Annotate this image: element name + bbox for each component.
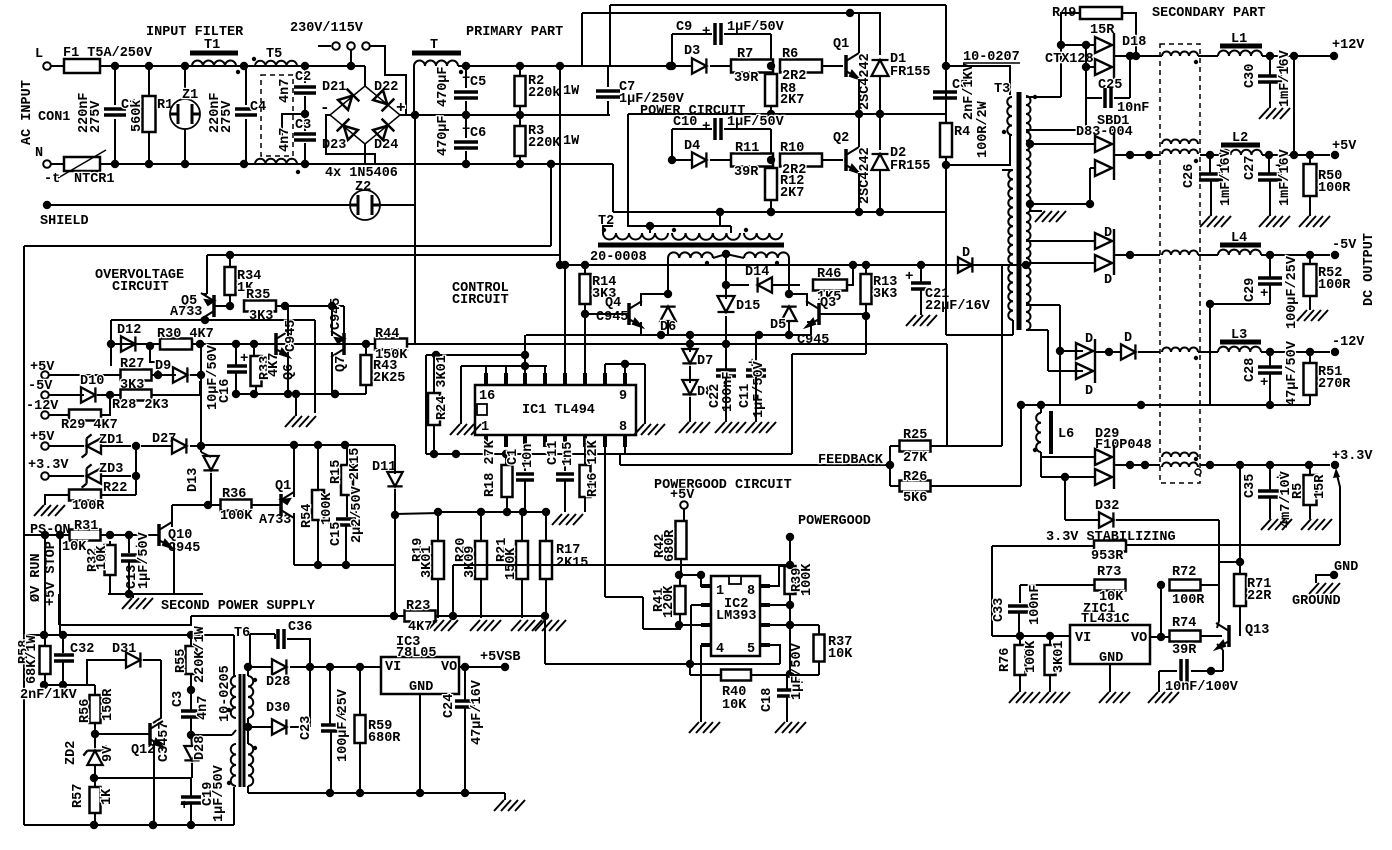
wire [1059, 305, 1061, 405]
junction [226, 302, 234, 310]
svg-text:A733: A733 [259, 513, 291, 528]
svg-text:GROUND: GROUND [1292, 594, 1341, 609]
wire D18 out [1114, 55, 1162, 57]
IC1 top pin stub 16 [484, 373, 488, 385]
junction [556, 62, 564, 70]
choke winding 5V a [1162, 140, 1198, 145]
junction [855, 208, 863, 216]
capacitor C3 [294, 134, 316, 140]
svg-text:F1 T5A/250V: F1 T5A/250V [63, 46, 153, 61]
wire [1049, 675, 1051, 692]
svg-text:2K15: 2K15 [556, 556, 588, 571]
resistor R75 [1045, 645, 1056, 675]
svg-text:POWERGOOD: POWERGOOD [798, 514, 871, 529]
resistor R5 [1304, 475, 1317, 505]
wire power mid left down [628, 114, 650, 226]
junction [391, 511, 399, 519]
IC notch [477, 404, 487, 415]
choke winding 3V3 b [1162, 463, 1198, 468]
wire [672, 128, 712, 130]
svg-text:C35: C35 [1243, 474, 1258, 498]
wire [62, 635, 64, 653]
wire [1269, 374, 1271, 405]
wire R26 right [930, 485, 1021, 487]
junction [581, 261, 589, 269]
wire [100, 475, 131, 477]
wire [287, 639, 310, 667]
wire D29 out [1114, 464, 1160, 466]
wire primary minus drop [550, 164, 552, 246]
wire [365, 344, 367, 355]
junction [1290, 52, 1298, 60]
wire [1090, 167, 1095, 169]
svg-text:39R: 39R [734, 165, 759, 180]
wire [345, 526, 347, 565]
wire [51, 163, 64, 165]
svg-text:D10: D10 [80, 374, 104, 389]
wire pin15 [505, 366, 507, 373]
svg-text:100R: 100R [1318, 181, 1351, 196]
wire [690, 605, 692, 664]
svg-text:10K: 10K [828, 647, 853, 662]
diode D11 [387, 472, 402, 486]
wire [1158, 671, 1160, 692]
IC1 top pin stub 13 [543, 373, 547, 385]
IC2 left pin stub [701, 584, 711, 588]
terminal -12V [41, 411, 49, 419]
wire tap -12Vb [1026, 329, 1048, 331]
svg-text:F10P048: F10P048 [1095, 438, 1152, 453]
ground [745, 422, 776, 433]
resistor R50 [1304, 164, 1317, 196]
svg-text:5K6: 5K6 [903, 491, 927, 506]
wire -5V row [1261, 254, 1330, 256]
wire T2 top link drop [649, 226, 651, 233]
wire Q13 junction [1239, 625, 1241, 636]
wire Q7 collector [331, 352, 333, 394]
svg-text:T1: T1 [204, 38, 220, 53]
svg-text:100R: 100R [72, 499, 105, 514]
svg-text:FEEDBACK: FEEDBACK [818, 453, 884, 468]
capacitor C26 [1199, 174, 1223, 180]
junction [697, 571, 705, 579]
junction [1056, 347, 1064, 355]
wire [235, 373, 237, 394]
transistor Q13 [1216, 623, 1229, 649]
wire row 667 [248, 666, 273, 668]
ground [1148, 692, 1179, 703]
wire [1309, 196, 1311, 216]
wire [505, 454, 507, 464]
svg-text:1n5: 1n5 [561, 442, 576, 466]
wire [772, 284, 800, 286]
wire [751, 674, 790, 676]
IC1 bottom pin stub 4 [543, 435, 547, 447]
svg-text:1µF/50V: 1µF/50V [137, 531, 152, 589]
wire D1 down [879, 76, 881, 114]
resistor R58 [40, 646, 51, 674]
resistor R49 [1080, 7, 1122, 19]
wire [680, 559, 682, 575]
inductor L3 [1218, 347, 1261, 352]
svg-text:3K01: 3K01 [420, 546, 435, 578]
svg-text:C5: C5 [470, 75, 486, 90]
wire [250, 633, 275, 635]
diode D7 [682, 349, 697, 363]
wire [1040, 452, 1042, 477]
wire [524, 447, 526, 471]
junction [1132, 52, 1140, 60]
T3 core bar [1017, 92, 1022, 330]
wire [135, 446, 137, 476]
junction [1126, 461, 1134, 469]
svg-text:R29 4K7: R29 4K7 [61, 418, 118, 433]
wire [304, 96, 306, 131]
IC2 right pin stub [760, 584, 770, 588]
wire Q5 emitter [206, 255, 208, 294]
svg-text:C10: C10 [673, 115, 697, 130]
svg-text:R26: R26 [903, 470, 927, 485]
junction [244, 663, 252, 671]
wire row 344 right [406, 343, 947, 345]
wire bridge bottom [364, 144, 366, 164]
svg-text:INPUT FILTER: INPUT FILTER [146, 25, 244, 40]
junction [356, 789, 364, 797]
junction [1145, 151, 1153, 159]
wire [235, 344, 237, 366]
svg-text:AC INPUT: AC INPUT [20, 80, 35, 145]
wire [139, 343, 160, 345]
ground [285, 416, 316, 427]
junction [226, 251, 234, 259]
wire [190, 635, 192, 646]
junction [301, 110, 309, 118]
wire SBD out [1114, 154, 1160, 156]
wire left drop [425, 355, 427, 454]
junction [876, 208, 884, 216]
wire to pin1 [701, 575, 710, 586]
junction [1022, 261, 1030, 269]
wire [683, 509, 685, 521]
IC2 notch [729, 576, 741, 584]
wire [890, 485, 900, 487]
junction [668, 156, 676, 164]
junction [561, 261, 569, 269]
junction [862, 312, 870, 320]
svg-text:R5: R5 [1291, 483, 1306, 499]
svg-text:1: 1 [716, 584, 724, 599]
junction [521, 362, 529, 370]
diode D12 [121, 336, 135, 351]
wire row 344 left [111, 343, 376, 345]
wire D30 up [309, 667, 311, 727]
junction [125, 590, 133, 598]
svg-text:2K7: 2K7 [780, 186, 804, 201]
wire [344, 343, 376, 345]
wire [1309, 352, 1311, 363]
wire [295, 394, 297, 416]
wire Q7 base drop [343, 306, 345, 333]
svg-text:953R: 953R [1091, 549, 1124, 564]
ground [122, 598, 153, 609]
dual diode SBD1 [1095, 132, 1114, 180]
spark gap Z2 [350, 190, 380, 220]
svg-text:C11: C11 [738, 384, 753, 408]
resistor R46 [813, 280, 847, 291]
svg-text:9: 9 [619, 389, 627, 404]
L2 core [1221, 143, 1260, 148]
svg-text:275V: 275V [220, 100, 235, 133]
svg-text:R74: R74 [1172, 616, 1196, 631]
ground [1309, 583, 1340, 594]
ground [535, 620, 566, 631]
wire [290, 726, 310, 728]
wire [519, 156, 521, 164]
wire R14 to pin11 [584, 314, 586, 373]
svg-text:C16: C16 [218, 379, 233, 403]
wire [465, 115, 467, 138]
wire [865, 265, 867, 274]
choke winding -5V [1162, 251, 1198, 256]
wire [1217, 644, 1223, 650]
inductor L4 [1218, 250, 1261, 255]
wire Q4 emitter [640, 322, 642, 335]
ground [1299, 216, 1330, 227]
junction [232, 340, 240, 348]
junction [1266, 461, 1274, 469]
wire [192, 343, 276, 345]
inductor L1 [1218, 51, 1262, 57]
svg-text:R44: R44 [375, 327, 399, 342]
resistor R6 [780, 60, 822, 73]
svg-text:R23: R23 [406, 599, 430, 614]
wire row 664 [545, 663, 780, 665]
wire [672, 159, 692, 161]
junction [502, 450, 510, 458]
capacitor C1 [104, 109, 126, 115]
wire rail 635 [26, 634, 234, 636]
svg-text:4: 4 [716, 642, 724, 657]
junction [722, 250, 730, 258]
ground [1297, 310, 1328, 321]
wire [191, 735, 192, 747]
wire [190, 374, 201, 376]
wire row 685 [44, 684, 95, 686]
wire [710, 65, 731, 67]
svg-text:1µF/50V: 1µF/50V [727, 20, 785, 35]
wire minus rail left [24, 245, 551, 247]
phase dot [252, 57, 256, 61]
junction [541, 612, 549, 620]
junction [187, 686, 195, 694]
svg-text:22µF/16V: 22µF/16V [925, 299, 991, 314]
wire [49, 475, 84, 477]
wire [290, 666, 381, 668]
junction [40, 631, 48, 639]
terminal +5V [1331, 151, 1339, 159]
wire rail drop [544, 616, 546, 664]
wire [94, 764, 96, 778]
wire D31 down [153, 660, 161, 723]
junction feedback [886, 461, 894, 469]
wire [1198, 254, 1218, 256]
wire [1269, 83, 1271, 108]
resistor R1 [143, 96, 156, 132]
capacitor C2 [294, 87, 316, 93]
wire Q6 collector [287, 306, 289, 336]
capacitor C4 [235, 109, 257, 115]
wire D13 column [200, 346, 202, 452]
wire [437, 579, 439, 618]
junction [197, 371, 205, 379]
wire [822, 65, 843, 67]
svg-text:D9: D9 [155, 359, 171, 374]
wire [584, 304, 586, 314]
phase dot [602, 228, 606, 232]
capacitor C21 [911, 283, 931, 289]
wire [94, 723, 96, 734]
wire [437, 512, 439, 541]
wire [191, 763, 193, 778]
diode D5 [781, 307, 796, 321]
junction [668, 62, 676, 70]
svg-text:R27: R27 [120, 357, 144, 372]
wire [49, 394, 84, 396]
wire [1095, 351, 1122, 353]
wire to R23 [394, 565, 396, 616]
IC1 bottom pin stub 7 [603, 435, 607, 447]
resistor R21 [516, 541, 528, 579]
svg-text:3K09: 3K09 [463, 546, 478, 578]
wire rail down 2 [945, 165, 947, 335]
wire [1018, 613, 1020, 636]
junction [292, 390, 300, 398]
junction [240, 160, 248, 168]
svg-text:C23: C23 [299, 716, 314, 740]
junction [666, 62, 674, 70]
ground [1301, 519, 1332, 530]
svg-text:L6: L6 [1058, 427, 1074, 442]
svg-text:D18: D18 [1122, 35, 1146, 50]
wire [190, 804, 192, 825]
svg-text:+3.3V: +3.3V [28, 458, 69, 473]
junction [1157, 581, 1165, 589]
IC2 right pin stub [760, 643, 770, 647]
wire [770, 129, 772, 154]
resistor R23 [405, 611, 436, 622]
wire [1269, 352, 1271, 366]
wire PS-ON drop 1 [44, 535, 46, 634]
svg-text:Q4: Q4 [605, 296, 621, 311]
resistor R39 [785, 566, 796, 594]
wire [49, 374, 121, 376]
wire [789, 565, 791, 566]
wire [920, 290, 922, 315]
junction [1086, 200, 1094, 208]
junction [767, 62, 775, 70]
phase dot [253, 678, 257, 682]
wire [249, 634, 251, 667]
svg-text:C30: C30 [1243, 64, 1258, 88]
junction [149, 821, 157, 829]
wire bottom row [24, 824, 191, 826]
wire [726, 284, 749, 286]
junction [187, 631, 195, 639]
junction [390, 612, 398, 620]
wire +3.3V row [1200, 464, 1330, 466]
wire [365, 385, 367, 394]
svg-text:680R: 680R [663, 529, 678, 562]
svg-text:L3: L3 [1231, 328, 1247, 343]
svg-text:150K: 150K [504, 547, 519, 580]
T6 winding right top [248, 676, 253, 718]
wire [1061, 13, 1080, 45]
junction [284, 390, 292, 398]
capacitor C35 [1258, 491, 1282, 497]
svg-text:16: 16 [479, 389, 495, 404]
wire selector mid [350, 50, 352, 66]
svg-text:1: 1 [481, 420, 489, 435]
junction [347, 62, 355, 70]
phase dot [227, 708, 231, 712]
transistor Q7 [331, 331, 344, 357]
wire Q12 base [95, 733, 150, 735]
svg-text:D22: D22 [374, 80, 398, 95]
T6 winding left top [231, 676, 236, 718]
wire D15 bottom [725, 316, 727, 344]
wire Q4 base [585, 313, 629, 315]
svg-text:3K01: 3K01 [1052, 641, 1067, 673]
junction [846, 9, 854, 17]
resistor R72 [1170, 580, 1201, 591]
wire Q2 collector [858, 114, 860, 147]
wire [128, 535, 130, 553]
wire C22 link [690, 343, 726, 345]
junction [855, 110, 863, 118]
svg-text:78L05: 78L05 [396, 646, 437, 661]
ground [715, 422, 746, 433]
svg-text:C18: C18 [760, 688, 775, 712]
wire [318, 45, 331, 47]
capacitor C29 [1258, 278, 1282, 284]
resistor R57 [90, 787, 101, 813]
dual diode D -12V [1076, 339, 1095, 383]
svg-text:10nF/100V: 10nF/100V [1165, 680, 1239, 695]
wire [1040, 405, 1042, 413]
wire [1191, 670, 1223, 672]
svg-text:D28: D28 [266, 675, 290, 690]
diode D15 [718, 296, 735, 312]
junction [462, 111, 470, 119]
zener ZD1 [87, 438, 101, 453]
phase dot [1194, 159, 1198, 163]
svg-text:VI: VI [385, 660, 401, 675]
wire D2 down [879, 170, 881, 212]
wire [190, 690, 192, 710]
wire rail to D1 [850, 13, 880, 55]
wire [317, 520, 319, 565]
resistor R41 [675, 586, 686, 614]
svg-text:-5V: -5V [28, 379, 53, 394]
resistor R12 [765, 168, 777, 200]
wire [1086, 97, 1102, 99]
wire [1200, 154, 1220, 156]
svg-text:NTCR1: NTCR1 [74, 172, 115, 187]
svg-text:1µF/50V: 1µF/50V [212, 764, 227, 822]
transistor Q5 [201, 293, 214, 319]
diode D31 [126, 652, 140, 667]
junction [56, 531, 64, 539]
